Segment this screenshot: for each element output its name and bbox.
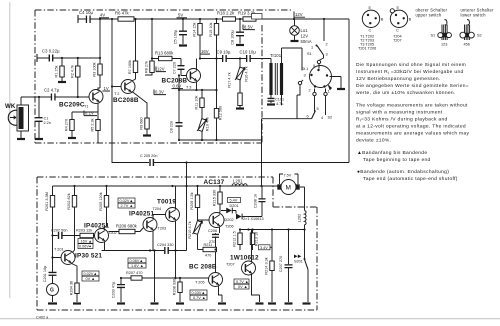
capacitor C1 2.2n (36, 96, 51, 138)
svg-text:T201 T206: T201 T206 (358, 47, 376, 51)
transistor T202 IP40251 (84, 223, 117, 251)
svg-text:2.7V ▲: 2.7V ▲ (121, 204, 134, 208)
ground below R204 (73, 302, 81, 304)
capacitor C201 10u (43, 258, 57, 284)
svg-text:T207: T207 (226, 263, 235, 267)
svg-text:T 2: T 2 (114, 92, 119, 96)
svg-text:1: 1 (311, 46, 313, 50)
svg-text:T0019: T0019 (157, 199, 176, 206)
switch S1 (307, 19, 328, 60)
svg-text:C202 50n: C202 50n (51, 229, 67, 233)
resistor R17 4.7k (228, 72, 243, 107)
note text german (356, 62, 469, 96)
svg-text:deviate ±10%.: deviate ±10%. (356, 138, 391, 144)
svg-text:C8 22n: C8 22n (170, 121, 174, 133)
resistor R203 12k (76, 229, 94, 238)
svg-text:R213 10: R213 10 (255, 232, 259, 246)
svg-text:D201: D201 (230, 204, 239, 208)
svg-text:470: 470 (205, 254, 211, 258)
svg-text:R202 82k: R202 82k (67, 193, 71, 209)
svg-text:AC137: AC137 (204, 179, 225, 186)
svg-text:measurements are average value: measurements are average values which ma… (356, 131, 470, 137)
resistor R15 10k (209, 19, 219, 90)
wire drop to bottom rail (186, 163, 188, 187)
svg-text:4.7µ: 4.7µ (276, 102, 284, 106)
boxed label 5.4V (228, 198, 241, 203)
node 12V label (156, 67, 166, 72)
svg-text:T206: T206 (225, 225, 234, 229)
transistor T2 BC208B (111, 80, 139, 105)
node 16V label (200, 49, 210, 54)
node 12V supply label (294, 12, 305, 20)
ground below microphone (17, 138, 25, 140)
svg-text:0V ▲: 0V ▲ (86, 277, 95, 281)
label oberer Schalter (416, 8, 448, 18)
svg-text:12V Betriebsspannung gemessen.: 12V Betriebsspannung gemessen. (356, 76, 441, 82)
wire T1 base line y97 (21, 96, 89, 98)
svg-text:R10 47k: R10 47k (206, 117, 210, 131)
ground below R208 (176, 302, 184, 304)
svg-text:R8 27k: R8 27k (145, 61, 149, 73)
svg-text:R5 2.3k: R5 2.3k (91, 118, 95, 131)
boxed label 3.4V (259, 245, 273, 251)
boxed labels 0.02V 2.7V (118, 198, 135, 208)
capacitor C7 220 (173, 59, 185, 76)
svg-text:1: 1 (328, 90, 330, 94)
svg-text:0.02V▲: 0.02V▲ (120, 199, 134, 203)
switch pictogram S2 (460, 20, 482, 47)
ground below C5 (179, 44, 187, 46)
svg-text:0.7V ▲: 0.7V ▲ (236, 280, 249, 284)
svg-text:S1: S1 (307, 52, 312, 56)
svg-text:0.6V: 0.6V (173, 84, 182, 89)
svg-text:C207 270: C207 270 (279, 256, 283, 272)
svg-text:R201 3.3M: R201 3.3M (45, 192, 49, 211)
svg-text:16V: 16V (201, 49, 209, 54)
transistor T206 (209, 213, 234, 234)
svg-text:Tr101: Tr101 (270, 53, 282, 58)
resistor R208 330 (173, 278, 183, 302)
svg-text:St.1: St.1 (302, 67, 309, 71)
resistor R214 3.3k (265, 230, 275, 303)
chassis border bottom section (dash-dot) (37, 177, 317, 310)
resistor R3 100k (93, 19, 103, 88)
svg-text:5.4V: 5.4V (230, 199, 238, 203)
svg-text:0.03V▲: 0.03V▲ (192, 291, 206, 295)
ground below C8 (236, 44, 244, 46)
svg-text:G: G (50, 288, 54, 294)
svg-text:S1: S1 (431, 34, 436, 38)
ground below C101 (267, 103, 275, 105)
trimmer R16 4.7k (235, 57, 249, 81)
resistor R202 82k (67, 186, 77, 253)
svg-text:R2 4.7k: R2 4.7k (70, 65, 74, 78)
resistor R213 10 (250, 230, 258, 251)
svg-text:6: 6 (307, 115, 309, 119)
svg-text:●Bandende (autom. Endabschaltu: ●Bandende (autom. Endabschaltung) (357, 169, 449, 175)
wire supply rail 12V top (78, 18, 349, 20)
transistor T205 BC208B (189, 264, 223, 303)
node 0.6V label (172, 84, 184, 89)
svg-text:12V: 12V (295, 12, 303, 17)
ground below C1 (35, 138, 43, 140)
svg-text:R207 470: R207 470 (126, 271, 142, 275)
svg-text:2: 2 (326, 43, 328, 47)
svg-text:0.02V▲: 0.02V▲ (84, 272, 98, 276)
ground below T207 (256, 302, 264, 304)
resistor R13 680k (152, 51, 181, 61)
svg-text:3.4V: 3.4V (260, 246, 268, 250)
resistor R209 1.5k (190, 186, 200, 220)
svg-text:at a 12-volt operating voltage: at a 12-volt operating voltage. The indi… (356, 124, 466, 130)
ground below R4 (68, 137, 76, 139)
svg-text:R7 100k: R7 100k (128, 60, 132, 74)
capacitor C203 47u (112, 278, 126, 302)
resistor R1 15k (55, 57, 65, 81)
svg-text:R210 4.7k: R210 4.7k (188, 221, 192, 238)
note text english (356, 103, 470, 144)
svg-text:R212 1.5: R212 1.5 (233, 231, 237, 246)
wire long bias line x112 (111, 19, 113, 143)
wire power feed line y162 (187, 162, 350, 164)
svg-text:5: 5 (313, 64, 315, 68)
svg-text:R18 2.2k: R18 2.2k (217, 11, 235, 16)
node 1V label (103, 86, 111, 91)
svg-text:T 201: T 201 (54, 248, 64, 252)
microphone WK (5, 97, 29, 138)
resistor R14 15k (193, 19, 203, 59)
ground below G (48, 302, 57, 304)
svg-text:BC209C: BC209C (59, 102, 85, 109)
svg-text:R9 680: R9 680 (140, 117, 144, 129)
ground right of St.1 (337, 88, 345, 90)
capacitor C208 1n (248, 186, 266, 217)
svg-text:L201: L201 (233, 179, 243, 184)
svg-text:0.7V ▲: 0.7V ▲ (193, 296, 206, 300)
capacitor C8b 22n (170, 74, 183, 140)
svg-text:C206: C206 (208, 229, 217, 233)
node junction dots on rail (99, 18, 325, 20)
svg-text:M: M (286, 185, 291, 192)
svg-text:C204 330: C204 330 (157, 243, 173, 247)
wire emitter line y90 (179, 89, 217, 91)
capacitor C202 50n (51, 229, 67, 240)
svg-text:lower switch: lower switch (461, 13, 487, 18)
svg-text:L202: L202 (298, 214, 302, 222)
svg-text:4V: 4V (100, 13, 105, 18)
resistor R5 2.3k (91, 118, 101, 143)
wire bottom section supply rail y186 (53, 185, 278, 187)
boxed labels 0.03V 0.7V (190, 290, 207, 300)
svg-text:The voltage measurements are t: The voltage measurements are taken witho… (356, 103, 468, 109)
transformer Tr101 (264, 48, 302, 95)
ground below chain (151, 302, 159, 304)
svg-text:C9 10µ: C9 10µ (217, 50, 231, 55)
svg-text:R204 36: R204 36 (70, 281, 74, 295)
capacitor C9 10u (217, 50, 231, 63)
svg-text:C: C (396, 29, 399, 33)
wire right rail down to lower section (348, 19, 350, 163)
svg-text:R215 330: R215 330 (213, 190, 217, 206)
node 4V label (99, 13, 109, 18)
svg-text:R16 4.7k: R16 4.7k (245, 66, 249, 81)
inductor L201 (232, 179, 247, 187)
svg-text:T 205: T 205 (195, 281, 205, 285)
note bullet tape end (357, 169, 458, 182)
svg-text:R17 4.7k: R17 4.7k (228, 72, 232, 87)
scan artifact bottom gray rule (0, 318, 500, 319)
svg-text:S201: S201 (294, 260, 303, 264)
svg-text:C1: C1 (44, 117, 49, 121)
svg-text:C101: C101 (275, 98, 284, 102)
svg-text:C8 100µ: C8 100µ (231, 29, 235, 44)
svg-text:C3 0.22µ: C3 0.22µ (42, 49, 60, 54)
svg-text:8.5V: 8.5V (244, 25, 253, 30)
capacitor C2 4.7u (44, 88, 60, 101)
svg-text:T207: T207 (393, 39, 402, 43)
scan artifact left gray line (9, 2, 10, 298)
ground below R214 (268, 302, 276, 304)
capacitor C207 270 (279, 230, 293, 303)
wire input line y58 (37, 57, 100, 59)
svg-text:1V: 1V (104, 86, 109, 91)
svg-text:4: 4 (321, 116, 323, 120)
svg-text:R4 270: R4 270 (65, 119, 69, 131)
svg-text:C5 100µ: C5 100µ (174, 29, 178, 44)
boxed labels 16V 0.06V (78, 239, 93, 249)
svg-text:C203 47µ: C203 47µ (112, 281, 116, 298)
svg-text:IP40251: IP40251 (84, 223, 109, 230)
node 0.1V label (84, 111, 97, 116)
svg-text:upper switch: upper switch (416, 13, 442, 18)
wire T1 emitter bus (72, 112, 98, 120)
ground below R1 (58, 81, 66, 83)
switch S2 (262, 85, 333, 186)
resistor R212 1.5k (233, 230, 243, 251)
svg-text:C: C (369, 29, 372, 33)
svg-text:7.5V: 7.5V (284, 174, 292, 178)
inductor L202 (298, 211, 307, 230)
motor M (277, 174, 299, 195)
svg-text:C7 220: C7 220 (173, 62, 177, 74)
wire T204 emitter to base line (175, 251, 177, 279)
wire bottom return y140 (179, 139, 262, 141)
resistor R4 270 (65, 119, 75, 137)
svg-text:R6 47k: R6 47k (115, 11, 129, 16)
ground below R17 (236, 107, 244, 109)
trimmer R210 4.7k (188, 220, 209, 250)
wire lower line y250.5 (102, 186, 187, 251)
svg-text:T1: T1 (84, 105, 88, 109)
svg-text:T204: T204 (153, 207, 162, 211)
svg-text:3: 3 (326, 53, 328, 57)
connector pictogram DIN plug 2 (390, 6, 412, 33)
wire T202 base line y235.5 (53, 235, 95, 237)
label list plug1 transistors (358, 35, 376, 51)
svg-text:R3 100k: R3 100k (93, 62, 97, 76)
capacitor C101 4.7u (268, 95, 285, 106)
svg-text:1W10612: 1W10612 (230, 255, 259, 262)
switch S201 (294, 230, 308, 303)
resistor R205 120k (99, 186, 109, 229)
ground below C207 (285, 302, 293, 304)
svg-text:0.06V▲: 0.06V▲ (130, 259, 144, 263)
label unterer Schalter (461, 8, 495, 18)
capacitor C8 100u electrolytic (231, 19, 245, 45)
diode D202 (225, 214, 264, 222)
svg-text:C208 1n: C208 1n (254, 194, 258, 208)
node 0.3V label (154, 90, 166, 95)
resistor R215 330 (213, 186, 223, 214)
svg-text:signal with a measuring instru: signal with a measuring instrument (356, 110, 443, 116)
chassis border top section (dash-dot) (35, 10, 291, 143)
svg-text:R211: R211 (204, 243, 213, 247)
resistor R12 560 (214, 89, 222, 140)
svg-text:R206 680k: R206 680k (116, 224, 138, 229)
capacitor C205 20n link line (112, 143, 188, 166)
resistor R18 2.2k (217, 11, 236, 22)
transistor T201 IP30521 (51, 248, 102, 284)
wire St.1 right pin to ground (332, 77, 342, 89)
wire T203 emitter chain (154, 251, 156, 303)
trimmer R10 47k (196, 117, 210, 140)
boxed labels 0.06V 1.6V (128, 258, 146, 268)
svg-text:5: 5 (317, 107, 319, 111)
svg-text:R205 120k: R205 120k (99, 192, 103, 210)
resistor R201 3.3M (45, 186, 55, 258)
svg-text:0.1V: 0.1V (85, 111, 94, 116)
resistor R8 27k (145, 19, 155, 75)
svg-text:456: 456 (464, 43, 470, 47)
ground below lamp (291, 40, 299, 42)
connector pictogram DIN plug 1 (362, 6, 384, 33)
svg-text:12V: 12V (301, 34, 309, 39)
resistor R2 4.7k (70, 57, 80, 98)
note bullet tape beginning (357, 150, 431, 163)
svg-text:R13 680k: R13 680k (155, 51, 174, 56)
wire motor to L202 (300, 187, 305, 211)
svg-text:Tape end (automatic tape-end s: Tape end (automatic tape-end shutoff) (363, 176, 458, 182)
svg-text:IP40251: IP40251 (129, 211, 154, 218)
svg-text:S2: S2 (328, 116, 333, 120)
svg-text:Lo1: Lo1 (301, 28, 309, 33)
svg-text:2×1 X10613: 2×1 X10613 (243, 217, 264, 221)
svg-text:R214 3.3k: R214 3.3k (265, 257, 269, 274)
svg-text:3: 3 (304, 74, 306, 78)
ground below C203 (117, 302, 125, 304)
ground below T205 (218, 302, 226, 304)
boxed labels 0.7V 0V (234, 279, 249, 289)
wire coupling line y58.5 (200, 58, 269, 60)
svg-text:0.06V●: 0.06V● (79, 245, 91, 249)
svg-text:R209 1.5k: R209 1.5k (190, 192, 194, 209)
svg-text:R15 10k: R15 10k (209, 22, 213, 36)
switch pictogram S1 (431, 20, 452, 47)
resistor R11 10k (195, 89, 205, 119)
capacitor C204 330 (157, 243, 173, 254)
svg-text:123: 123 (441, 43, 447, 47)
svg-text:C402 a: C402 a (36, 316, 49, 320)
boxed labels 0.02V 0V (82, 271, 99, 281)
svg-text:2: 2 (309, 89, 311, 93)
svg-text:2.2n: 2.2n (44, 121, 51, 125)
connector box on rail after R19 (252, 14, 263, 20)
svg-text:R14 15k: R14 15k (193, 22, 197, 36)
transistor T1 BC209C (59, 88, 103, 112)
svg-text:S2: S2 (477, 34, 482, 38)
wire T205 base line y278 (121, 277, 209, 279)
generator G (47, 284, 59, 303)
resistor R211 470 (198, 243, 217, 258)
svg-text:T203: T203 (158, 227, 167, 231)
wire motor bus y229.5 (240, 229, 305, 231)
capacitor C4 10u input stub (78, 10, 93, 23)
svg-text:50mA: 50mA (301, 39, 312, 44)
capacitor C206 270 (208, 229, 219, 273)
svg-text:R208 330: R208 330 (173, 279, 177, 295)
capacitor C5 100u electrolytic (174, 19, 188, 44)
svg-text:C4 10µ: C4 10µ (79, 10, 93, 15)
lamp Lo1 (290, 19, 312, 44)
svg-text:Instrument Ri =33kΩ/V bei Wied: Instrument Ri =33kΩ/V bei Wiedergabe und (356, 69, 464, 75)
svg-text:12V: 12V (157, 67, 165, 72)
svg-text:B: B (409, 18, 412, 22)
svg-text:R11 10k: R11 10k (195, 95, 199, 109)
svg-text:C201 10µ: C201 10µ (43, 265, 47, 282)
node 5V label (177, 13, 188, 18)
transistor T204 T0019 (153, 186, 180, 251)
svg-text:D202: D202 (225, 218, 234, 222)
svg-text:BC 208B: BC 208B (189, 264, 217, 271)
resistor R204 36 (70, 281, 80, 302)
resistor R207 470 (126, 271, 142, 280)
svg-text:Ri=33 Kohms /V during playback: Ri=33 Kohms /V during playback and (356, 117, 448, 123)
svg-text:0.3V: 0.3V (155, 90, 164, 95)
ground below R9 (143, 134, 151, 136)
svg-text:▲Bandanfang bis Bandende: ▲Bandanfang bis Bandende (357, 150, 427, 156)
svg-text:16V ▲: 16V ▲ (81, 239, 93, 243)
svg-text:BC208B: BC208B (113, 97, 139, 104)
svg-text:R12 560: R12 560 (219, 106, 223, 120)
svg-text:R1 15k: R1 15k (55, 65, 59, 77)
svg-text:WK: WK (5, 103, 16, 110)
svg-text:B: B (381, 18, 384, 22)
svg-text:T 3: T 3 (186, 86, 191, 90)
transistor T207 1W10612 (226, 230, 260, 303)
svg-text:IP30 521: IP30 521 (75, 253, 102, 260)
svg-text:C2 4.7µ: C2 4.7µ (44, 88, 60, 93)
capacitor C3 0.22u (37, 49, 60, 63)
node 8.5V label (243, 25, 255, 30)
ground below S201 (303, 302, 311, 304)
transistor T203 IP40251 (129, 211, 166, 251)
capacitor C10 10u (240, 50, 257, 63)
svg-text:0V ▲: 0V ▲ (238, 285, 247, 289)
resistor R9 680 (132, 92, 149, 135)
svg-text:werte, die um ±10% schwanken k: werte, die um ±10% schwanken können. (356, 90, 456, 96)
resistor R6 47k (115, 11, 134, 22)
transistor T3 BC208B (162, 59, 201, 91)
resistor R19 3.3k (238, 11, 256, 22)
resistor R7 100k (128, 19, 138, 82)
svg-text:Tape beginning to tape end: Tape beginning to tape end (363, 157, 431, 163)
svg-text:C 205 20n: C 205 20n (140, 154, 158, 158)
svg-text:C10 10µ: C10 10µ (240, 50, 257, 55)
svg-text:5V: 5V (178, 13, 183, 18)
connector St.1 DIN socket (298, 60, 332, 95)
svg-text:1.6V ▲: 1.6V ▲ (131, 264, 144, 268)
svg-text:Die angegeben Werte sind gemit: Die angegeben Werte sind gemittelte Seri… (356, 83, 469, 89)
